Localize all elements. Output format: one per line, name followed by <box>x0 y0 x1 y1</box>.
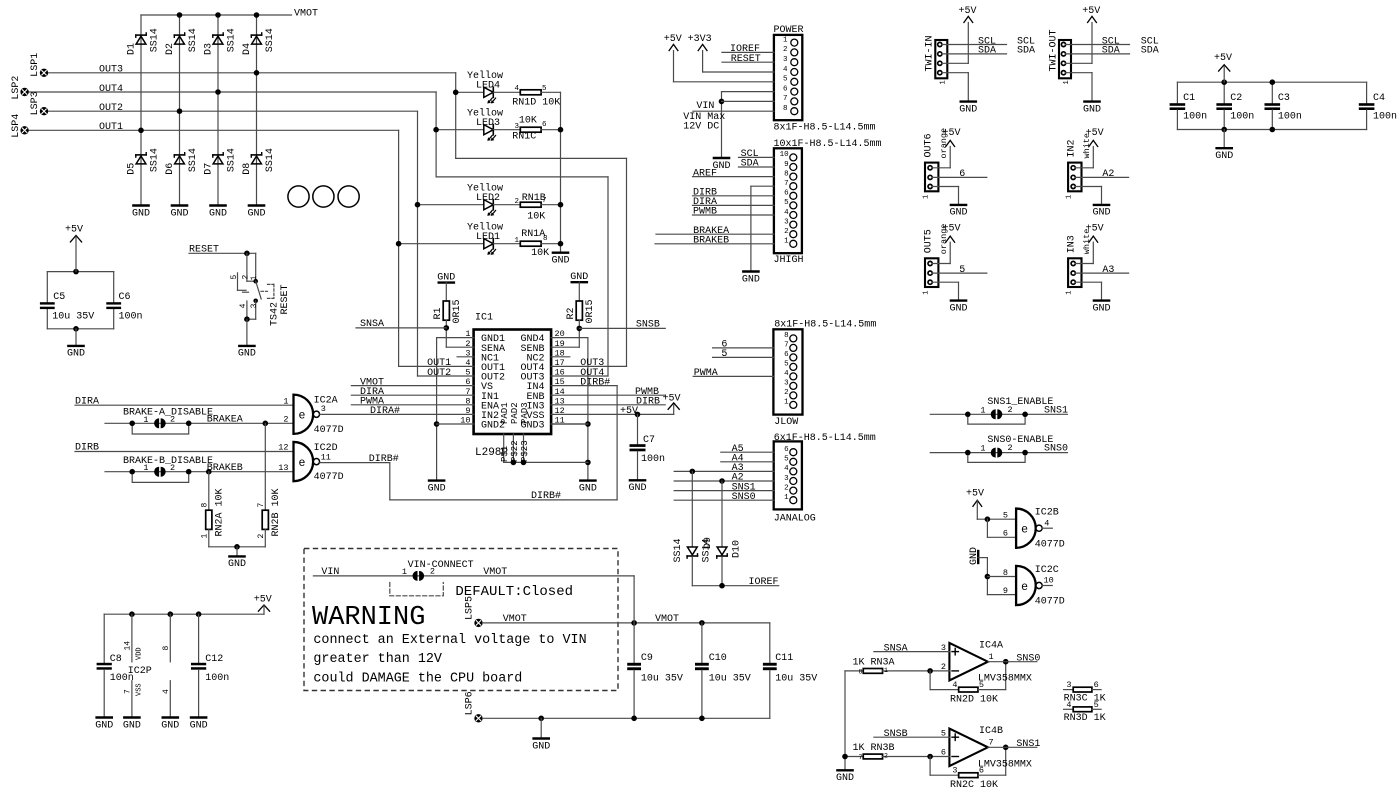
svg-text:1: 1 <box>989 652 994 662</box>
svg-text:3: 3 <box>1066 680 1071 690</box>
svg-text:greater than 12V: greater than 12V <box>313 652 442 667</box>
svg-text:D9: D9 <box>703 537 714 549</box>
svg-text:GND: GND <box>132 208 150 219</box>
svg-text:GND: GND <box>742 274 760 285</box>
svg-text:SNSB: SNSB <box>636 320 660 331</box>
svg-text:5: 5 <box>721 349 727 360</box>
svg-text:OUT1: OUT1 <box>99 122 123 133</box>
svg-text:4: 4 <box>162 689 171 694</box>
svg-text:7: 7 <box>784 180 789 188</box>
svg-text:GND: GND <box>67 349 85 360</box>
svg-text:+5V: +5V <box>662 393 680 404</box>
svg-text:7: 7 <box>257 503 266 508</box>
svg-text:white: white <box>1082 229 1092 255</box>
svg-text:+5V: +5V <box>1214 53 1232 64</box>
svg-text:IC2C: IC2C <box>1035 565 1059 576</box>
svg-text:2: 2 <box>514 198 519 206</box>
svg-text:GND: GND <box>437 272 455 283</box>
svg-text:GND: GND <box>1215 151 1233 162</box>
svg-text:LED1: LED1 <box>476 232 500 243</box>
svg-text:VMOT: VMOT <box>503 614 527 625</box>
svg-text:+5V: +5V <box>1082 6 1100 17</box>
svg-text:GND: GND <box>95 720 113 731</box>
svg-text:4077D: 4077D <box>1035 540 1065 551</box>
svg-text:orange: orange <box>939 224 949 255</box>
svg-text:10: 10 <box>780 151 790 159</box>
svg-text:BRAKEB: BRAKEB <box>207 463 243 474</box>
svg-text:SDA: SDA <box>1102 46 1120 57</box>
svg-text:2: 2 <box>1008 405 1013 415</box>
svg-text:100n: 100n <box>1230 111 1254 122</box>
svg-text:OUT2: OUT2 <box>99 103 123 114</box>
svg-text:1: 1 <box>884 667 888 674</box>
svg-text:2: 2 <box>283 415 288 425</box>
svg-text:TS42: TS42 <box>270 302 281 326</box>
svg-text:2: 2 <box>941 662 946 672</box>
svg-text:0R15: 0R15 <box>452 299 463 323</box>
svg-text:RN1C: RN1C <box>512 132 536 143</box>
svg-text:LSP2: LSP2 <box>11 76 22 100</box>
svg-text:A2: A2 <box>1102 169 1114 180</box>
svg-text:+5V: +5V <box>65 225 83 236</box>
svg-text:11: 11 <box>321 452 331 462</box>
svg-text:LSP5: LSP5 <box>465 596 476 620</box>
svg-text:R1: R1 <box>433 307 444 319</box>
svg-text:P$22: P$22 <box>510 440 520 462</box>
svg-text:DIRB#: DIRB# <box>531 491 561 502</box>
svg-text:GND: GND <box>969 547 980 565</box>
svg-text:LED4: LED4 <box>476 81 500 92</box>
svg-text:R2: R2 <box>566 307 577 319</box>
svg-text:1: 1 <box>784 494 789 502</box>
svg-text:9: 9 <box>1003 586 1008 596</box>
svg-text:4077D: 4077D <box>1035 596 1065 607</box>
svg-text:6: 6 <box>1094 680 1099 690</box>
svg-text:BRAKE-B_DISABLE: BRAKE-B_DISABLE <box>123 456 213 467</box>
svg-text:C5: C5 <box>53 292 65 303</box>
svg-text:LED2: LED2 <box>476 193 500 204</box>
svg-text:SNSB: SNSB <box>884 729 908 740</box>
svg-text:10K: 10K <box>519 116 537 127</box>
svg-text:OUT5: OUT5 <box>923 229 934 253</box>
svg-text:GND: GND <box>570 272 588 283</box>
svg-text:LSP1: LSP1 <box>30 53 41 77</box>
svg-text:SS14: SS14 <box>673 538 684 562</box>
svg-text:GND: GND <box>190 720 208 731</box>
svg-text:4: 4 <box>514 85 519 93</box>
svg-text:10x1F-H8.5-L14.5mm: 10x1F-H8.5-L14.5mm <box>774 139 882 150</box>
svg-text:1: 1 <box>922 195 930 199</box>
svg-text:BRAKE-A_DISABLE: BRAKE-A_DISABLE <box>123 408 213 419</box>
svg-text:C4: C4 <box>1373 93 1385 104</box>
svg-text:PAD1: PAD1 <box>500 402 510 424</box>
svg-text:1: 1 <box>283 396 288 406</box>
svg-text:GND: GND <box>1092 208 1110 219</box>
svg-text:LMV358MMX: LMV358MMX <box>978 674 1032 685</box>
svg-text:5: 5 <box>784 361 789 369</box>
svg-text:4077D: 4077D <box>314 472 344 483</box>
svg-text:+3V3: +3V3 <box>688 34 712 45</box>
svg-text:2: 2 <box>170 463 175 473</box>
svg-text:VMOT: VMOT <box>483 567 507 578</box>
svg-text:1K RN3B: 1K RN3B <box>853 743 895 754</box>
svg-text:6: 6 <box>959 169 965 180</box>
svg-text:D7: D7 <box>204 163 215 175</box>
svg-text:VSS: VSS <box>136 683 144 696</box>
svg-text:SNS0: SNS0 <box>1044 444 1068 455</box>
svg-text:10u 35V: 10u 35V <box>52 311 94 322</box>
svg-text:100n: 100n <box>1183 111 1207 122</box>
svg-text:1: 1 <box>402 567 407 577</box>
svg-text:6: 6 <box>941 748 946 758</box>
svg-text:4: 4 <box>784 370 789 378</box>
svg-text:10u 35V: 10u 35V <box>641 673 683 684</box>
svg-text:RN1A: RN1A <box>521 229 545 240</box>
svg-text:IC2B: IC2B <box>1035 508 1059 519</box>
svg-text:1: 1 <box>783 36 788 44</box>
svg-text:LSP3: LSP3 <box>30 91 41 115</box>
svg-text:5: 5 <box>959 265 965 276</box>
svg-text:GND: GND <box>170 208 188 219</box>
svg-text:RN3D 1K: RN3D 1K <box>1064 713 1106 724</box>
svg-text:3: 3 <box>952 766 957 776</box>
svg-text:100n: 100n <box>641 454 665 465</box>
svg-text:SS14: SS14 <box>150 28 161 52</box>
svg-text:10: 10 <box>1044 576 1054 586</box>
svg-text:4: 4 <box>783 66 788 74</box>
svg-text:GND: GND <box>238 349 256 360</box>
svg-text:+5V: +5V <box>966 489 984 500</box>
svg-text:GND: GND <box>1083 104 1101 115</box>
svg-text:8: 8 <box>859 669 863 676</box>
svg-text:DIRB#: DIRB# <box>369 454 399 465</box>
svg-text:9: 9 <box>784 161 789 169</box>
svg-text:6: 6 <box>542 121 547 129</box>
svg-text:5: 5 <box>784 199 789 207</box>
svg-text:3: 3 <box>321 404 326 414</box>
svg-text:e: e <box>299 457 306 470</box>
svg-text:P$23: P$23 <box>520 440 530 462</box>
svg-text:GND: GND <box>949 208 967 219</box>
svg-text:3: 3 <box>784 475 789 483</box>
svg-text:3: 3 <box>783 56 788 64</box>
svg-text:RN2C 10K: RN2C 10K <box>950 780 998 791</box>
svg-text:GND: GND <box>161 720 179 731</box>
svg-text:GND: GND <box>1092 303 1110 314</box>
svg-text:10u 35V: 10u 35V <box>709 673 751 684</box>
svg-text:5: 5 <box>784 456 789 464</box>
svg-text:SNS1: SNS1 <box>1016 739 1040 750</box>
svg-text:1K RN3A: 1K RN3A <box>853 657 895 668</box>
svg-text:e: e <box>1021 581 1028 594</box>
svg-text:RESET: RESET <box>731 54 761 65</box>
svg-text:OUT2: OUT2 <box>427 368 451 379</box>
svg-text:1: 1 <box>1065 195 1073 199</box>
svg-text:4: 4 <box>1044 518 1049 528</box>
svg-text:1: 1 <box>201 534 210 539</box>
svg-text:D5: D5 <box>127 163 138 175</box>
svg-text:VIN: VIN <box>696 101 714 112</box>
svg-text:100n: 100n <box>1278 111 1302 122</box>
svg-text:GND: GND <box>959 104 977 115</box>
svg-text:14: 14 <box>124 641 133 651</box>
svg-text:PWMB: PWMB <box>693 207 717 218</box>
svg-text:5: 5 <box>230 275 239 280</box>
svg-text:GND: GND <box>228 559 246 570</box>
svg-text:0R15: 0R15 <box>585 299 596 323</box>
svg-text:4: 4 <box>784 209 789 217</box>
svg-text:LED3: LED3 <box>476 118 500 129</box>
svg-text:DIRB: DIRB <box>75 443 99 454</box>
svg-text:VMOT: VMOT <box>655 614 679 625</box>
svg-text:BRAKEA: BRAKEA <box>207 415 243 426</box>
svg-text:e: e <box>1021 524 1028 537</box>
svg-text:e: e <box>299 410 306 423</box>
svg-text:1: 1 <box>1063 80 1071 84</box>
svg-text:1: 1 <box>1065 290 1073 294</box>
svg-text:C6: C6 <box>119 292 131 303</box>
svg-text:7: 7 <box>989 738 994 748</box>
svg-text:D10: D10 <box>732 540 743 558</box>
svg-text:2: 2 <box>257 534 266 539</box>
svg-text:1: 1 <box>980 444 985 454</box>
svg-text:WARNING: WARNING <box>312 603 425 633</box>
svg-text:7: 7 <box>124 689 133 694</box>
svg-text:C1: C1 <box>1183 93 1195 104</box>
svg-text:TWI-OUT: TWI-OUT <box>1048 29 1059 71</box>
svg-text:2: 2 <box>784 484 789 492</box>
svg-text:IN2: IN2 <box>1066 139 1077 157</box>
svg-text:2: 2 <box>170 415 175 425</box>
svg-text:4: 4 <box>952 680 957 690</box>
svg-text:LMV358MMX: LMV358MMX <box>978 759 1032 770</box>
svg-text:IC4A: IC4A <box>979 641 1003 652</box>
svg-text:1: 1 <box>143 415 148 425</box>
svg-text:8: 8 <box>784 170 789 178</box>
svg-text:6: 6 <box>784 446 789 454</box>
svg-text:C2: C2 <box>1230 93 1242 104</box>
svg-text:8: 8 <box>201 503 210 508</box>
svg-text:SDA: SDA <box>741 159 759 170</box>
svg-text:1: 1 <box>939 80 947 84</box>
svg-text:IC1: IC1 <box>475 313 493 324</box>
svg-text:orange: orange <box>939 128 949 159</box>
svg-text:5: 5 <box>1003 511 1008 521</box>
svg-text:SS14: SS14 <box>265 148 276 172</box>
svg-text:12: 12 <box>278 443 288 453</box>
svg-text:POWER: POWER <box>774 25 804 36</box>
svg-text:7: 7 <box>783 95 788 103</box>
svg-text:OUT4: OUT4 <box>99 84 123 95</box>
svg-text:5: 5 <box>1094 700 1099 710</box>
svg-text:GND: GND <box>579 483 597 494</box>
svg-text:+5V: +5V <box>620 406 638 417</box>
svg-text:SS14: SS14 <box>188 28 199 52</box>
svg-text:connect an External voltage to: connect an External voltage to VIN <box>313 633 586 648</box>
svg-text:D3: D3 <box>204 43 215 55</box>
svg-text:3: 3 <box>784 380 789 388</box>
svg-text:C12: C12 <box>205 654 223 665</box>
svg-text:4: 4 <box>239 303 248 308</box>
svg-text:LSP6: LSP6 <box>465 691 476 715</box>
svg-text:GND: GND <box>247 208 265 219</box>
svg-text:8x1F-H8.5-L14.5mm: 8x1F-H8.5-L14.5mm <box>774 320 876 331</box>
svg-text:6: 6 <box>1003 529 1008 539</box>
svg-text:2: 2 <box>430 567 435 577</box>
svg-text:DIRA: DIRA <box>75 396 99 407</box>
svg-text:DIRB: DIRB <box>636 397 660 408</box>
svg-text:2: 2 <box>1008 443 1013 453</box>
svg-text:JLOW: JLOW <box>774 417 798 428</box>
svg-text:SNSA: SNSA <box>884 643 908 654</box>
svg-text:6: 6 <box>784 190 789 198</box>
svg-text:8x1F-H8.5-L14.5mm: 8x1F-H8.5-L14.5mm <box>774 123 876 134</box>
svg-text:DIRA#: DIRA# <box>370 406 400 417</box>
svg-text:RN1B: RN1B <box>522 193 546 204</box>
svg-text:8: 8 <box>783 105 788 113</box>
svg-text:2: 2 <box>784 228 789 236</box>
svg-text:A3: A3 <box>1102 265 1114 276</box>
svg-text:4077D: 4077D <box>314 425 344 436</box>
svg-text:C3: C3 <box>1278 93 1290 104</box>
svg-text:+5V: +5V <box>664 34 682 45</box>
svg-text:P$1: P$1 <box>500 446 510 462</box>
svg-text:5: 5 <box>979 680 984 690</box>
svg-text:VIN: VIN <box>321 567 339 578</box>
svg-text:100n: 100n <box>119 311 143 322</box>
svg-text:8: 8 <box>162 646 171 651</box>
svg-text:GND: GND <box>428 483 446 494</box>
svg-text:GND: GND <box>836 773 854 784</box>
svg-text:SDA: SDA <box>1141 46 1159 57</box>
svg-text:DIRB#: DIRB# <box>580 377 610 388</box>
svg-text:3: 3 <box>941 643 946 653</box>
svg-text:TWI-IN: TWI-IN <box>925 35 936 71</box>
svg-text:8: 8 <box>784 332 789 340</box>
svg-text:JANALOG: JANALOG <box>774 513 816 524</box>
svg-text:D2: D2 <box>165 43 176 55</box>
svg-text:IN3: IN3 <box>1066 235 1077 253</box>
svg-text:1: 1 <box>784 399 789 407</box>
svg-text:4: 4 <box>784 465 789 473</box>
svg-text:GND: GND <box>949 303 967 314</box>
svg-text:+5V: +5V <box>959 6 977 17</box>
svg-text:1: 1 <box>922 290 930 294</box>
svg-text:RN2A 10K: RN2A 10K <box>215 488 226 536</box>
svg-text:IC2P: IC2P <box>128 666 152 677</box>
svg-text:D8: D8 <box>242 163 253 175</box>
svg-text:3: 3 <box>784 218 789 226</box>
svg-text:SS14: SS14 <box>188 148 199 172</box>
svg-text:1: 1 <box>250 276 259 281</box>
svg-text:1: 1 <box>143 463 148 473</box>
svg-text:RN1D 10K: RN1D 10K <box>512 98 560 109</box>
svg-text:2: 2 <box>783 46 788 54</box>
svg-text:LSP4: LSP4 <box>11 114 22 138</box>
svg-text:OUT3: OUT3 <box>99 65 123 76</box>
svg-text:10K: 10K <box>527 212 545 223</box>
svg-text:7: 7 <box>784 342 789 350</box>
svg-text:C8: C8 <box>110 654 122 665</box>
svg-text:RN2D 10K: RN2D 10K <box>950 695 998 706</box>
svg-text:100n: 100n <box>1373 111 1397 122</box>
svg-text:GND: GND <box>532 741 550 752</box>
svg-text:5: 5 <box>542 85 547 93</box>
svg-text:IC4B: IC4B <box>979 726 1003 737</box>
svg-text:6: 6 <box>784 351 789 359</box>
svg-text:12V DC: 12V DC <box>683 122 719 133</box>
svg-text:6: 6 <box>979 766 984 776</box>
svg-text:1: 1 <box>980 405 985 415</box>
svg-text:IOREF: IOREF <box>749 577 779 588</box>
svg-text:C7: C7 <box>643 435 655 446</box>
svg-text:+5V: +5V <box>254 594 272 605</box>
svg-text:3: 3 <box>250 303 259 308</box>
svg-text:D4: D4 <box>242 43 253 55</box>
svg-text:13: 13 <box>278 463 288 473</box>
svg-text:8: 8 <box>1003 568 1008 578</box>
svg-text:SDA: SDA <box>1017 46 1035 57</box>
svg-text:RESET: RESET <box>280 284 291 314</box>
svg-text:1: 1 <box>784 238 789 246</box>
svg-text:7: 7 <box>859 754 863 761</box>
svg-text:SS14: SS14 <box>150 148 161 172</box>
svg-text:AREF: AREF <box>693 168 717 179</box>
svg-text:SDA: SDA <box>978 46 996 57</box>
svg-text:GND: GND <box>551 256 569 267</box>
svg-text:SNS1: SNS1 <box>1044 405 1068 416</box>
svg-text:VDD: VDD <box>136 647 144 660</box>
svg-text:6x1F-H8.5-L14.5mm: 6x1F-H8.5-L14.5mm <box>774 433 876 444</box>
svg-text:GND: GND <box>123 720 141 731</box>
svg-text:SNS0: SNS0 <box>732 492 756 503</box>
svg-text:2: 2 <box>884 753 888 760</box>
svg-text:RN2B 10K: RN2B 10K <box>271 488 282 536</box>
svg-text:6: 6 <box>783 85 788 93</box>
svg-text:BRAKEB: BRAKEB <box>693 236 729 247</box>
svg-text:10K: 10K <box>531 248 549 259</box>
svg-text:JHIGH: JHIGH <box>774 255 804 266</box>
svg-text:D6: D6 <box>165 163 176 175</box>
svg-text:100n: 100n <box>205 673 229 684</box>
svg-text:VMOT: VMOT <box>294 9 318 20</box>
svg-text:PWMA: PWMA <box>694 368 718 379</box>
svg-text:4: 4 <box>1066 700 1071 710</box>
svg-text:OUT6: OUT6 <box>923 133 934 157</box>
svg-text:could DAMAGE the CPU board: could DAMAGE the CPU board <box>313 672 522 687</box>
svg-text:SNSA: SNSA <box>360 319 384 330</box>
svg-text:2: 2 <box>784 389 789 397</box>
svg-text:VIN-CONNECT: VIN-CONNECT <box>408 560 474 571</box>
svg-text:PAD3: PAD3 <box>520 402 530 424</box>
svg-text:GND: GND <box>209 208 227 219</box>
svg-text:SS14: SS14 <box>227 148 238 172</box>
svg-text:GND: GND <box>628 483 646 494</box>
svg-text:white: white <box>1082 133 1092 159</box>
svg-text:SS14: SS14 <box>227 28 238 52</box>
svg-text:5: 5 <box>783 76 788 84</box>
svg-text:PAD2: PAD2 <box>510 402 520 424</box>
svg-text:C9: C9 <box>641 653 653 664</box>
svg-text:SNS0: SNS0 <box>1016 654 1040 665</box>
svg-text:10u 35V: 10u 35V <box>775 673 817 684</box>
svg-text:5: 5 <box>941 728 946 738</box>
svg-text:C11: C11 <box>775 653 793 664</box>
svg-text:SS14: SS14 <box>265 28 276 52</box>
svg-text:1: 1 <box>514 237 519 245</box>
svg-text:D1: D1 <box>127 43 138 55</box>
svg-text:C10: C10 <box>709 653 727 664</box>
